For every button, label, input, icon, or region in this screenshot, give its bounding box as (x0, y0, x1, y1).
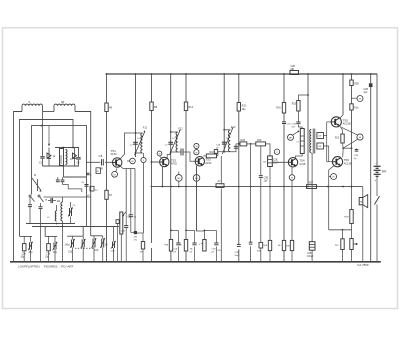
wire V270 lower (269, 167, 271, 262)
test point MP7 (194, 150, 199, 155)
transformer sec 1 (317, 133, 324, 139)
volume pot feed wires (123, 169, 135, 233)
svg-text:1µF: 1µF (264, 181, 269, 183)
feedthrough square (134, 231, 138, 242)
svg-text:M: M (159, 154, 161, 156)
svg-text:C2B: C2B (291, 66, 296, 68)
electrolytic C21 (263, 156, 278, 167)
bleed-through texture (30, 32, 143, 299)
wire V135 (135, 74, 137, 157)
filter F12 (165, 127, 184, 155)
left caps pair (56, 177, 82, 192)
svg-text:M: M (195, 146, 197, 148)
resistor R31 (350, 104, 359, 110)
secondary common wire (326, 122, 328, 162)
resistor A7 (216, 180, 224, 188)
wire V261 (260, 146, 262, 262)
svg-text:46µ: 46µ (242, 108, 247, 111)
output junction (342, 147, 352, 157)
svg-text:AC/B: AC/B (299, 162, 305, 166)
svg-text:F12: F12 (178, 127, 183, 131)
resistor R16 (203, 151, 218, 158)
test point MP13 (329, 174, 337, 180)
capacitor C5 (28, 197, 32, 224)
svg-text:C/B: C/B (99, 156, 103, 158)
svg-text:LOKPFLNFTEN: LOKPFLNFTEN (18, 264, 40, 268)
T54 collector wire (296, 154, 303, 159)
battery feed wire (376, 74, 378, 165)
svg-text:140p: 140p (65, 245, 71, 247)
svg-text:F11: F11 (143, 126, 148, 130)
svg-text:-: - (375, 161, 376, 165)
detector output stub (64, 166, 87, 177)
wire V250 (250, 144, 252, 262)
T56 base stub (327, 161, 333, 163)
antenna arrow (48, 126, 50, 146)
resistor R23 (335, 126, 344, 148)
svg-text:R/B: R/B (165, 245, 169, 247)
oscillator coil 1 (55, 205, 56, 221)
T53 emitter wire (197, 166, 205, 240)
svg-text:R23: R23 (335, 137, 340, 139)
capacitor C30 (235, 244, 241, 256)
F12 output chain (178, 149, 195, 162)
svg-text:C7b: C7b (46, 254, 51, 256)
sec2 wire (324, 146, 329, 162)
output node wire (329, 229, 352, 231)
T54 base wire (272, 161, 288, 163)
svg-text:C2B: C2B (212, 249, 217, 251)
diode D1 (47, 148, 56, 167)
svg-text:AF52: AF52 (171, 162, 178, 166)
svg-text:AC15B: AC15B (344, 162, 352, 165)
trimmer C8 (68, 202, 73, 224)
transformer core (313, 129, 315, 154)
tuning arrow M1 (32, 174, 42, 192)
svg-text:R2B: R2B (286, 246, 291, 248)
svg-text:R25: R25 (292, 104, 297, 106)
sec1 wire (324, 135, 327, 137)
capacitor C2 (39, 148, 45, 167)
svg-text:100µF: 100µF (307, 256, 314, 258)
detector top rail (55, 147, 79, 149)
svg-text:M: M (114, 174, 116, 176)
wire V151 (151, 74, 153, 262)
svg-text:C2B: C2B (307, 253, 312, 255)
svg-text:AC15B: AC15B (343, 123, 351, 126)
svg-text:4µF: 4µF (364, 92, 369, 94)
input coupling wire (86, 161, 113, 163)
switch (375, 196, 380, 262)
svg-text:R1b: R1b (354, 108, 359, 110)
resistor R26 (276, 103, 285, 114)
wire V370 (370, 74, 372, 262)
svg-text:C/A: C/A (174, 248, 178, 251)
filter F13 (216, 125, 236, 154)
capacitor top small (86, 173, 92, 177)
test point MP11 (352, 96, 364, 102)
bottom RC pair 1 (165, 230, 181, 262)
svg-text:9V: 9V (382, 170, 387, 174)
transistor T51 (111, 149, 122, 167)
svg-text:R2B: R2B (344, 217, 349, 219)
transistor T53 (195, 157, 212, 166)
shield box 2 (20, 120, 74, 237)
transformer primary (297, 129, 305, 154)
svg-text:FIGURES: FIGURES (44, 264, 57, 268)
svg-text:C2b: C2b (22, 254, 27, 256)
resistor R19 (256, 139, 270, 156)
capacitor C6 (39, 203, 43, 262)
shield box 3 (32, 125, 87, 227)
svg-text:1/B: 1/B (140, 252, 144, 254)
resistor R25 (292, 101, 300, 112)
battery 9V (374, 161, 387, 196)
svg-text:R16: R16 (210, 151, 215, 154)
left rail A (26, 223, 75, 225)
speaker (359, 187, 368, 262)
resistor R18 (240, 139, 256, 146)
resistor R24 (286, 240, 294, 250)
T56 emitter wire (329, 165, 335, 229)
feedthrough wire (137, 233, 143, 242)
capacitor on V284 (282, 122, 291, 126)
test point MP12 (342, 127, 364, 147)
resistor R15 (237, 103, 247, 112)
capacitor C24 blob (364, 83, 373, 94)
test point MP6 (194, 143, 199, 148)
coil riser column (42, 112, 44, 148)
resistor R30 (350, 80, 359, 86)
resistor R21 (264, 240, 272, 250)
T51 collector wire (121, 133, 136, 159)
small box on shield (87, 186, 98, 197)
resistor R7 (105, 190, 113, 199)
capacitor C20 (259, 176, 269, 183)
svg-text:50µF: 50µF (235, 255, 241, 257)
svg-text:C/B: C/B (217, 250, 221, 252)
resistor R12 (140, 242, 145, 262)
capacitor C1 (99, 156, 104, 170)
trimmer group 1 (C10/C11) (20, 236, 34, 261)
wire V186 (185, 74, 187, 262)
capacitor C23 (292, 122, 301, 129)
test point MP1 (127, 158, 136, 164)
svg-text:C2B: C2B (264, 178, 269, 180)
diode D2 (70, 148, 77, 167)
wire V308 (307, 74, 309, 184)
resistor R8 (150, 102, 158, 111)
svg-text:AF52: AF52 (205, 161, 212, 165)
svg-text:VORKR: VORKR (59, 155, 63, 164)
top supply bus (106, 73, 378, 75)
svg-text:10µF: 10µF (273, 163, 279, 165)
svg-text:R/B: R/B (264, 245, 268, 247)
T53 emitter upper (196, 166, 198, 231)
svg-text:C2B: C2B (235, 252, 240, 254)
T52 collector wire (167, 155, 171, 159)
bottom ground bus (10, 261, 381, 263)
top bus junction dots (106, 73, 372, 75)
gang coupling dashed line (75, 247, 94, 249)
svg-text:R14: R14 (189, 106, 194, 109)
volume pot (120, 212, 131, 262)
svg-text:1Bp: 1Bp (53, 252, 58, 254)
resistor R14 (184, 102, 193, 111)
caption text (18, 264, 74, 268)
transistor T56 (332, 157, 351, 167)
test point MP2 (141, 153, 146, 233)
test point MP4 (157, 151, 162, 158)
outer shield box (14, 112, 91, 262)
resistor R29 (344, 210, 353, 224)
svg-text:C2b: C2b (95, 250, 100, 252)
test point MP14 (288, 131, 300, 141)
AGC line junction dots (162, 186, 344, 188)
svg-text:M: M (195, 152, 197, 154)
svg-text:F13: F13 (231, 125, 236, 129)
test point MP9 (274, 149, 279, 154)
transistor T52 (160, 157, 178, 166)
svg-text:MB: MB (291, 69, 295, 71)
svg-text:R19: R19 (257, 139, 262, 142)
test point MP5 (176, 172, 183, 187)
transformer bottom wire (310, 154, 313, 262)
svg-text:C2B: C2B (292, 124, 297, 126)
resistor R32 (350, 239, 358, 250)
svg-text:C2B: C2B (354, 155, 359, 157)
test point MP8 (193, 175, 200, 182)
T52 emitter wire (161, 167, 163, 187)
coil L2 (54, 100, 75, 112)
svg-text:+: + (374, 179, 376, 183)
resistor R22 (278, 240, 286, 250)
trimmer C27 (111, 227, 116, 262)
svg-text:MP: MP (289, 137, 293, 139)
transistor T55 (331, 117, 351, 127)
electrolytic C25 (307, 242, 315, 258)
wire V221 (217, 156, 222, 262)
wire V284 (283, 74, 285, 262)
wire V343 (340, 74, 343, 118)
wire V351 (351, 74, 353, 148)
svg-text:C2B: C2B (273, 160, 278, 162)
capacitor C22 box (257, 242, 263, 252)
svg-text:R2B: R2B (354, 84, 359, 86)
svg-text:C2B: C2B (364, 89, 369, 91)
svg-text:4/B: 4/B (100, 169, 104, 171)
svg-text:R26: R26 (276, 107, 281, 110)
wire V106 (106, 74, 108, 262)
capacitor C3 (76, 148, 80, 167)
contact wire right (44, 196, 91, 198)
transformer sec 2 (317, 143, 324, 149)
svg-text:M: M (291, 178, 293, 180)
capacitor C9 on shield (81, 182, 89, 186)
wire V238 (238, 74, 240, 262)
wire V170 (170, 74, 172, 262)
transformer winding (310, 130, 311, 153)
T55 base stub (327, 121, 332, 123)
resistor R27 (307, 182, 317, 189)
T52 base wire (151, 161, 160, 163)
coil L1 (22, 100, 43, 112)
C10 foot wire (117, 224, 119, 262)
svg-text:R1B: R1B (241, 139, 246, 142)
oscillator coil 2 (61, 197, 63, 262)
capacitor C19 (249, 242, 253, 244)
svg-text:R27: R27 (309, 182, 314, 185)
svg-text:1B: 1B (61, 100, 65, 104)
capacitor C26 (354, 148, 359, 160)
resistor R28 (335, 230, 344, 262)
test point MP3 (112, 169, 118, 178)
F13 output chain (230, 143, 240, 152)
wire V352 lower (351, 148, 353, 262)
wire V298 (298, 95, 308, 127)
svg-text:C2b: C2b (68, 252, 73, 254)
capacitor on bus (290, 66, 299, 75)
T54 emitter wire (291, 167, 293, 262)
IF transformer box (59, 149, 67, 166)
left rail B (32, 223, 119, 228)
T51 emitter wire (121, 166, 136, 231)
contact S2 (38, 195, 44, 202)
detector bottom rail (43, 165, 80, 167)
svg-text:B1B: B1B (257, 251, 262, 253)
svg-text:C2B: C2B (216, 144, 221, 146)
svg-text:C2B: C2B (111, 251, 116, 253)
svg-text:4/B: 4/B (134, 237, 138, 239)
transformer feed (298, 127, 302, 129)
test point MP10 (289, 175, 295, 181)
svg-text:3Bp: 3Bp (29, 252, 34, 254)
trimmer group 2 (C12/C13) (45, 227, 58, 262)
capacitor C8b (129, 215, 137, 219)
trimmer group 3 (C14/C15) (65, 227, 86, 262)
wire V224 (223, 74, 225, 152)
small box R5b (96, 168, 101, 174)
svg-text:M: M (34, 174, 36, 177)
contact S1 (29, 195, 35, 202)
svg-text:KA 7859: KA 7859 (358, 263, 369, 267)
capacitor C10 box (116, 220, 120, 224)
resistor R6 (105, 103, 113, 112)
svg-text:M: M (333, 177, 335, 179)
svg-text:... ...... ... ....... .. ....: ... ...... ... ....... .. ...... .... ..… (40, 294, 143, 299)
bottom RC pair 3 (199, 230, 219, 262)
svg-text:.... ... ...... .. .... ......: .... ... ...... .. .... ....... ... .. .… (30, 47, 142, 52)
trimmer group 4 (C16/C17) (91, 236, 108, 262)
capacitor C14 box (214, 150, 224, 156)
AGC line (151, 186, 363, 188)
capacitor C28 (121, 212, 134, 262)
bottom RC pair 2 (180, 230, 197, 262)
oscillator labels (45, 200, 77, 220)
filter F11 (130, 126, 148, 156)
svg-text:AF51: AF51 (111, 152, 118, 156)
drawing number (358, 263, 369, 267)
svg-text:: PO--ART: : PO--ART (60, 264, 74, 268)
svg-text:M: M (359, 137, 361, 139)
svg-text:M: M (359, 99, 361, 101)
svg-text:14B: 14B (121, 231, 125, 233)
capacitor C7a (48, 198, 61, 203)
transistor T54 (288, 158, 305, 167)
